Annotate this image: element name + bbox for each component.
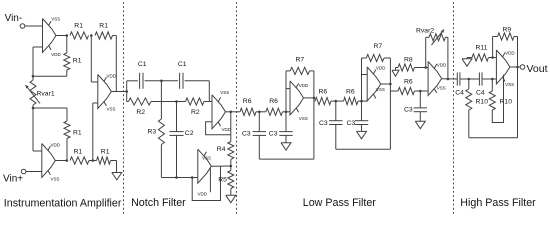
U2 VDD pin label — [51, 143, 61, 148]
svg-text:C1: C1 — [138, 61, 147, 68]
node U8 output junction — [447, 78, 450, 81]
U9 VDD pin label — [505, 51, 515, 56]
node LP2 +in junction — [360, 100, 363, 103]
node R2 midpoint junction — [175, 100, 178, 103]
op-amp U2 — [42, 144, 56, 178]
label R6 — [319, 89, 328, 96]
wire — [161, 177, 197, 179]
U6 VSS pin label — [299, 116, 308, 121]
svg-text:R3: R3 — [148, 129, 157, 136]
wire — [25, 25, 43, 27]
resistor R10 (first) — [466, 79, 472, 138]
ground (LP stage3) — [415, 121, 425, 128]
label R7 — [374, 43, 383, 50]
label C3 — [242, 131, 251, 138]
label C1 — [138, 61, 147, 68]
svg-text:VDD: VDD — [51, 52, 61, 57]
wire (U5 feedback) — [192, 166, 220, 201]
U5 VSS pin label — [202, 156, 211, 161]
node D junction — [90, 34, 93, 37]
svg-text:R10: R10 — [476, 99, 489, 106]
svg-text:R6: R6 — [404, 78, 413, 85]
label section Notch Filter — [131, 197, 186, 209]
svg-text:C3: C3 — [319, 120, 328, 127]
svg-text:Vin+: Vin+ — [3, 173, 23, 184]
node notch input junction — [125, 90, 128, 93]
label R8 — [404, 57, 413, 64]
label section Low Pass Filter — [303, 197, 376, 209]
wire — [362, 58, 368, 101]
wire — [381, 83, 391, 85]
resistor R6 (stage2 first) — [315, 98, 331, 105]
wire — [226, 111, 231, 113]
wire — [358, 100, 367, 102]
svg-text:R1: R1 — [74, 23, 83, 30]
svg-text:C4: C4 — [455, 90, 464, 97]
op-amp U7 — [367, 67, 381, 101]
node LP1 junction — [258, 111, 261, 114]
label R10 — [476, 99, 489, 106]
node C2 bottom junction — [175, 176, 178, 179]
svg-text:R1: R1 — [73, 130, 82, 137]
node Vin+ — [3, 169, 26, 184]
wire — [331, 100, 344, 102]
svg-text:R1: R1 — [74, 148, 83, 155]
node A junction — [32, 75, 35, 78]
svg-text:VSS: VSS — [51, 17, 60, 22]
wire — [256, 111, 266, 113]
svg-text:R4: R4 — [217, 146, 226, 153]
label R1 — [73, 57, 82, 64]
svg-text:R6: R6 — [319, 89, 328, 96]
label R2 — [136, 109, 145, 116]
U5 VDD pin — [209, 168, 211, 192]
U1 VDD pin label — [51, 52, 61, 57]
section divider (dashed) — [453, 2, 455, 215]
label section High Pass Filter — [460, 197, 536, 209]
svg-text:R11: R11 — [476, 45, 488, 52]
wire — [314, 100, 315, 102]
capacitor C3 (stage2 first) — [329, 101, 342, 149]
wire — [33, 75, 67, 77]
node LP3 junction — [419, 90, 422, 93]
node U9 output junction — [516, 66, 519, 69]
wire — [211, 165, 231, 167]
node HP1 junction — [468, 78, 471, 81]
wire — [151, 101, 186, 103]
wire — [33, 108, 42, 151]
wire — [426, 67, 428, 69]
node HP2 junction — [491, 78, 494, 81]
label R6 — [269, 98, 278, 105]
ground (LP stage2) — [357, 131, 367, 138]
label R1 — [73, 130, 82, 137]
label R6 — [346, 89, 355, 96]
resistor R11 — [467, 54, 496, 61]
capacitor C4 (second) — [479, 72, 482, 85]
svg-text:C3: C3 — [347, 120, 356, 127]
resistor R6 (stage1 first) — [240, 108, 256, 115]
svg-text:R1: R1 — [99, 23, 108, 30]
section divider (dashed) — [236, 2, 238, 215]
label R1 — [99, 23, 108, 30]
wire — [286, 71, 290, 112]
wire — [127, 101, 129, 103]
resistor R4 — [228, 142, 234, 160]
wire (HP outer feedback) — [469, 67, 518, 138]
ground (LP stage1) — [281, 143, 291, 150]
wire — [313, 71, 315, 159]
ground (R8) — [392, 68, 399, 77]
node U7 output junction — [389, 83, 392, 86]
wire — [482, 78, 496, 80]
svg-text:Instrumentation Amplifier: Instrumentation Amplifier — [4, 197, 122, 209]
label R5 — [218, 177, 227, 184]
svg-text:R2: R2 — [191, 109, 200, 116]
node Vin- — [5, 13, 25, 28]
node U4 output junction — [230, 111, 233, 114]
node LP2 junction — [335, 100, 338, 103]
wire (U4 feedback) — [206, 122, 231, 135]
node R8 junction — [424, 66, 427, 69]
label R1 — [74, 23, 83, 30]
wire — [492, 37, 494, 58]
label R11 — [476, 45, 488, 52]
svg-text:C4: C4 — [476, 90, 485, 97]
svg-text:Rvar2: Rvar2 — [416, 28, 434, 35]
node U2 output junction — [66, 159, 69, 162]
node R4/R5 junction — [230, 165, 233, 168]
wire — [56, 35, 67, 37]
capacitor C4 (first) — [457, 72, 460, 85]
svg-text:R7: R7 — [296, 56, 305, 63]
label R4 — [217, 146, 226, 153]
wire — [127, 80, 138, 82]
svg-text:C3: C3 — [269, 131, 278, 138]
label R3 — [148, 129, 157, 136]
resistor R7 (stage2 feedback) — [362, 54, 391, 61]
label C4 — [476, 90, 485, 97]
op-amp U6 — [290, 81, 304, 115]
svg-text:VDD: VDD — [198, 192, 208, 197]
label R2 — [191, 109, 200, 116]
label C3 — [347, 120, 356, 127]
node U1 output junction — [66, 34, 69, 37]
wire — [93, 103, 98, 161]
svg-text:VSS: VSS — [220, 90, 229, 95]
svg-text:R9: R9 — [503, 27, 512, 34]
resistor R6 (stage3) — [398, 87, 415, 94]
svg-text:R6: R6 — [346, 89, 355, 96]
svg-text:VSS: VSS — [299, 116, 308, 121]
label R1 — [101, 148, 110, 155]
node C junction — [92, 159, 95, 162]
svg-text:VDD: VDD — [222, 127, 232, 132]
node U6 output junction — [313, 97, 316, 100]
section divider (dashed) — [123, 2, 125, 215]
label C3 — [404, 107, 413, 114]
wire — [230, 159, 232, 166]
wire — [231, 111, 240, 113]
op-amp U1 — [43, 19, 57, 53]
resistor R2 (first) — [129, 98, 152, 105]
svg-text:C2: C2 — [185, 130, 194, 137]
svg-text:VDD: VDD — [107, 74, 117, 79]
U7 VDD pin label — [376, 66, 386, 71]
U9 VSS pin label — [505, 82, 514, 87]
label C4 — [455, 90, 464, 97]
svg-text:VDD: VDD — [51, 143, 61, 148]
wire — [145, 80, 162, 82]
node LP1 +in junction — [285, 111, 288, 114]
label C2 — [185, 130, 194, 137]
wire (stage2 bottom feedback) — [336, 148, 391, 150]
capacitor C1 (first) — [140, 73, 143, 89]
wire — [447, 37, 449, 79]
svg-text:R5: R5 — [218, 177, 227, 184]
svg-text:R10: R10 — [500, 99, 513, 106]
op-amp U8 — [428, 62, 442, 96]
wire — [283, 111, 291, 113]
resistor R3 — [158, 81, 164, 178]
wire — [304, 97, 314, 99]
wire — [204, 101, 212, 103]
U5 VDD pin label — [198, 192, 208, 197]
wire — [230, 112, 232, 142]
op-amp U5 — [198, 149, 212, 183]
label R10 — [500, 99, 513, 106]
svg-text:VSS: VSS — [437, 85, 446, 90]
svg-text:High Pass Filter: High Pass Filter — [460, 197, 536, 209]
op-amp U9 — [496, 50, 510, 84]
ground (R11) — [462, 58, 472, 67]
U6 VDD pin label — [299, 83, 309, 88]
wire — [161, 80, 178, 82]
resistor R10 (second) — [489, 79, 495, 110]
label R1 — [74, 148, 83, 155]
svg-text:VSS: VSS — [505, 82, 514, 87]
capacitor C3 (stage1 first) — [253, 112, 266, 159]
svg-text:VSS: VSS — [202, 156, 211, 161]
node C1 midpoint junction — [160, 80, 163, 83]
resistor R5 — [228, 166, 234, 195]
wire — [126, 81, 128, 102]
U7 VSS pin label — [376, 87, 385, 92]
wire — [389, 58, 391, 149]
capacitor C3 (stage3) — [414, 91, 427, 121]
svg-text:R6: R6 — [243, 98, 252, 105]
U8 VDD pin label — [437, 63, 447, 68]
resistor R1 (U2 feedback) — [64, 108, 70, 161]
wire — [510, 66, 520, 68]
ground (INA) — [112, 173, 122, 180]
wire (R10 to -in) — [492, 75, 503, 123]
svg-text:VSS: VSS — [376, 87, 385, 92]
wire (stage1 bottom feedback) — [259, 158, 314, 160]
wire — [390, 90, 398, 92]
svg-text:C3: C3 — [242, 131, 251, 138]
node B junction — [32, 107, 35, 110]
svg-text:Vin-: Vin- — [5, 13, 23, 24]
wire — [26, 171, 42, 173]
svg-text:R8: R8 — [404, 57, 413, 64]
label C3 — [269, 131, 278, 138]
svg-text:VSS: VSS — [107, 107, 116, 112]
label section Instrumentation Amplifier — [4, 197, 122, 209]
svg-text:C1: C1 — [178, 61, 187, 68]
resistor R1 (U1 feedback) — [64, 36, 70, 77]
U2 VSS pin label — [51, 177, 60, 182]
svg-text:Notch Filter: Notch Filter — [131, 197, 186, 209]
resistor R1 (top second) — [95, 32, 113, 39]
resistor R6 (stage1 second) — [266, 108, 283, 115]
capacitor C2 — [169, 102, 183, 178]
wire — [113, 36, 117, 92]
resistor R6 (stage2 second) — [344, 98, 359, 105]
Rvar2 arrow — [432, 30, 445, 46]
resistor R9 — [493, 33, 518, 40]
resistor R1 (top first) — [70, 32, 89, 39]
wire — [111, 161, 117, 173]
capacitor C3 (stage1 second) — [279, 112, 292, 143]
label R6 — [404, 78, 413, 85]
svg-text:Low Pass Filter: Low Pass Filter — [303, 197, 376, 209]
label R6 — [243, 98, 252, 105]
op-amp U4 — [212, 95, 226, 129]
svg-text:VSS: VSS — [51, 177, 60, 182]
op-amp U3 — [98, 75, 112, 109]
resistor R1 (lower right) — [97, 157, 111, 164]
ground (notch) — [226, 195, 236, 202]
wire — [33, 107, 67, 109]
U1 VSS pin label — [51, 17, 60, 22]
resistor Rvar1 — [30, 76, 36, 108]
node R11 junction — [491, 56, 494, 59]
svg-text:Vout: Vout — [527, 63, 548, 75]
capacitor C3 (stage2 second) — [355, 101, 368, 131]
svg-text:C3: C3 — [404, 107, 413, 114]
label R9 — [503, 27, 512, 34]
capacitor C1 (second) — [180, 73, 183, 89]
resistor R8 — [396, 64, 426, 71]
wire — [460, 78, 479, 80]
svg-text:VDD: VDD — [299, 83, 309, 88]
wire — [91, 36, 98, 83]
node Vout — [520, 63, 547, 75]
resistor R2 (second) — [186, 98, 205, 105]
svg-text:VDD: VDD — [376, 66, 386, 71]
Rvar1 arrow — [26, 85, 41, 104]
wire — [415, 90, 429, 92]
resistor Rvar2 — [426, 34, 448, 41]
label C1 — [178, 61, 187, 68]
wire — [111, 91, 126, 93]
svg-text:R7: R7 — [374, 43, 383, 50]
wire — [442, 78, 457, 80]
wire — [425, 37, 427, 67]
U4 VSS pin label — [220, 90, 229, 95]
label C3 — [319, 120, 328, 127]
svg-text:VDD: VDD — [437, 63, 447, 68]
wire — [517, 37, 519, 68]
label Rvar2 — [416, 28, 434, 35]
svg-text:R2: R2 — [136, 109, 145, 116]
svg-text:R1: R1 — [73, 57, 82, 64]
U3 VDD pin label — [107, 74, 117, 79]
svg-text:R6: R6 — [269, 98, 278, 105]
wire — [89, 160, 97, 162]
label R7 — [296, 56, 305, 63]
wire — [185, 81, 210, 102]
label Rvar1 — [37, 91, 55, 98]
svg-text:Rvar1: Rvar1 — [37, 91, 55, 98]
U8 VSS pin label — [437, 85, 446, 90]
wire — [33, 47, 43, 76]
wire — [55, 160, 67, 162]
resistor R1 (lower left) — [70, 157, 89, 164]
resistor R7 (stage1 feedback) — [286, 67, 314, 74]
U4 VDD pin label — [222, 127, 232, 132]
U3 VSS pin label — [107, 107, 116, 112]
node op5 feedback junction — [191, 176, 194, 179]
svg-text:R1: R1 — [101, 148, 110, 155]
svg-text:VDD: VDD — [505, 51, 515, 56]
